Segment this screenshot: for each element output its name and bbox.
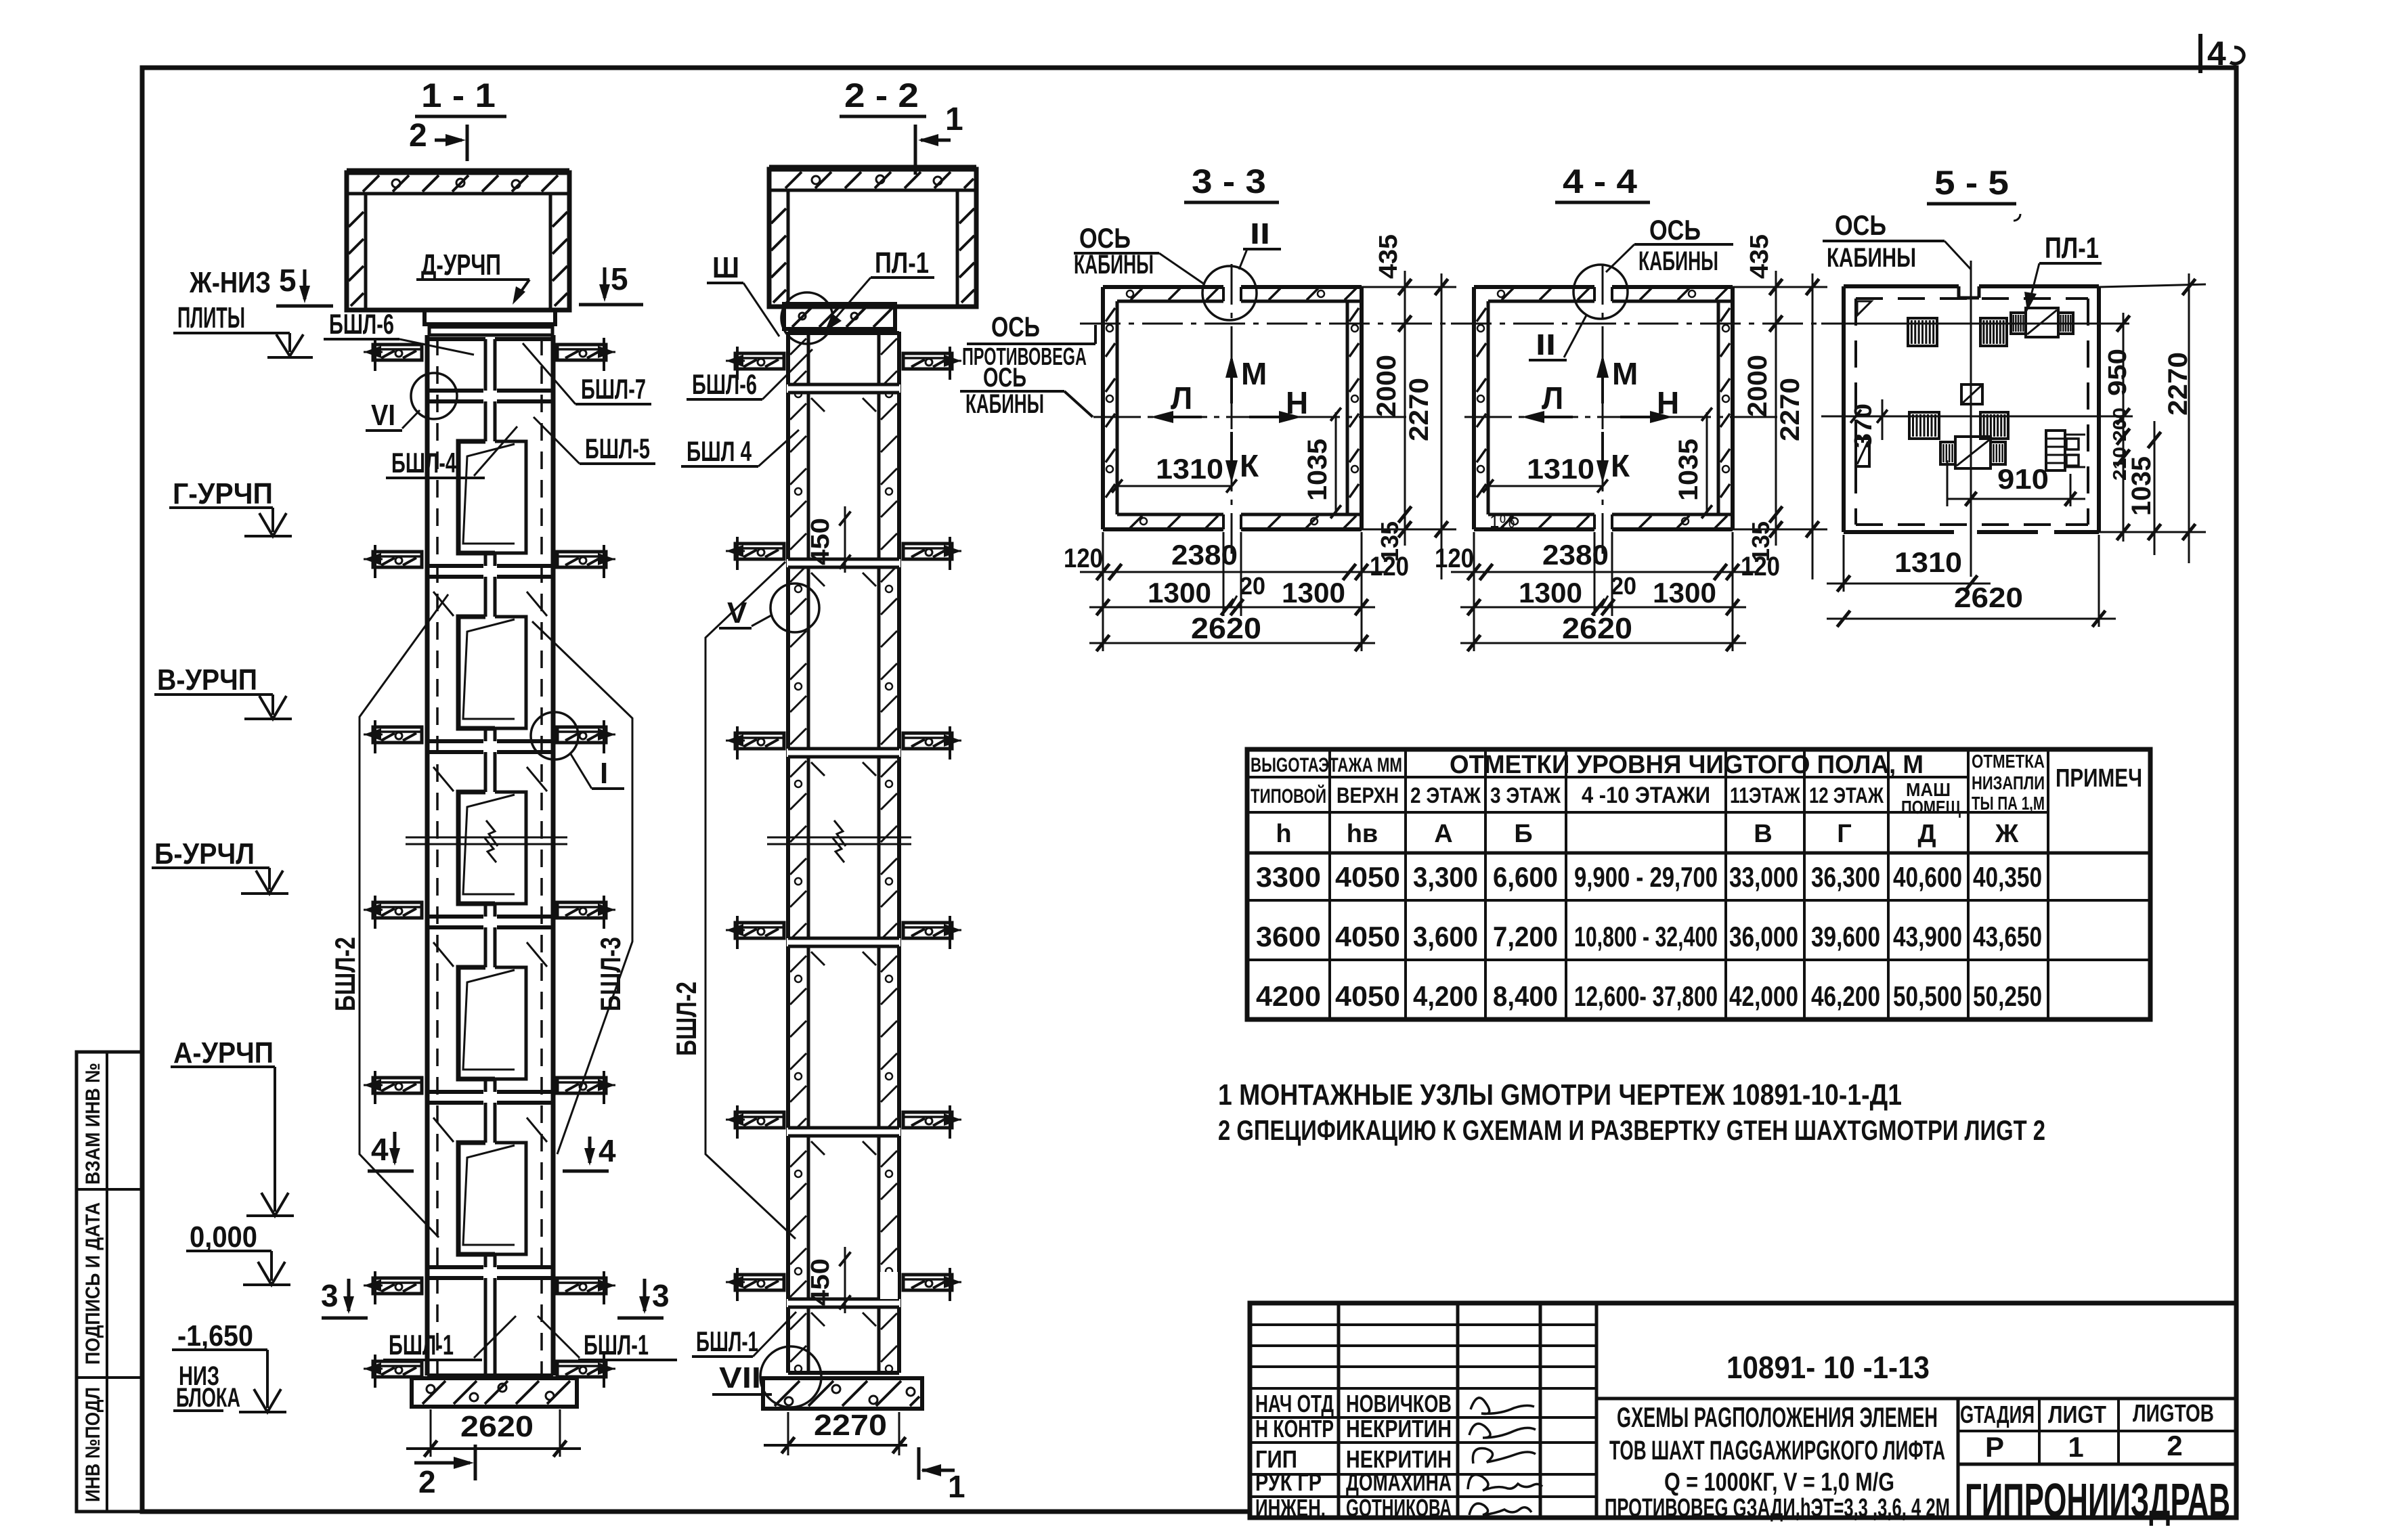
- svg-text:Г-УРЧП: Г-УРЧП: [173, 477, 273, 510]
- svg-text:43,900: 43,900: [1893, 921, 1962, 952]
- svg-text:ОСЬ: ОСЬ: [1835, 209, 1886, 241]
- svg-text:Н: Н: [1286, 385, 1308, 420]
- svg-text:Л: Л: [1171, 380, 1192, 416]
- center slit between half-blocks 1-1: [484, 339, 487, 391]
- svg-text:ИНВ №ПОДЛ: ИНВ №ПОДЛ: [82, 1387, 104, 1502]
- svg-text:3: 3: [321, 1278, 339, 1313]
- svg-text:ОСЬ: ОСЬ: [1649, 214, 1701, 246]
- axis cross 5-5: [1821, 323, 2129, 325]
- svg-text:Ж: Ж: [1995, 820, 2019, 848]
- svg-text:М: М: [1612, 356, 1638, 391]
- door openings with leaves 1-1: [458, 441, 495, 553]
- svg-text:К: К: [1611, 448, 1630, 483]
- block leader ticks inside rows 1-1: [433, 592, 454, 616]
- svg-text:БШЛ-1: БШЛ-1: [696, 1325, 758, 1357]
- svg-text:ПЛИТЫ: ПЛИТЫ: [177, 301, 245, 334]
- svg-text:Н КОНТР: Н КОНТР: [1255, 1415, 1334, 1443]
- dashed walls below 5-5: [1856, 297, 2088, 300]
- title block doc number cell line: [1596, 1397, 2236, 1401]
- svg-text:ТОВ ШАХТ ПАGGАЖИРGКОГО ЛИФТА: ТОВ ШАХТ ПАGGАЖИРGКОГО ЛИФТА: [1609, 1436, 1945, 1466]
- right dim line 2270 4-4: [1812, 273, 1814, 579]
- detail circle I on right joint: [531, 712, 578, 760]
- title block outer border: [1250, 1303, 2236, 1518]
- svg-text:950: 950: [2104, 349, 2132, 396]
- svg-text:3 ЭТАЖ: 3 ЭТАЖ: [1490, 783, 1561, 808]
- svg-text:1%: 1%: [1490, 511, 1515, 531]
- table vertical lines: [1328, 749, 1331, 1019]
- storey heights table: [1247, 749, 2150, 1019]
- controller block right 5-5: [2046, 431, 2065, 470]
- svg-text:БШЛ-1: БШЛ-1: [389, 1329, 454, 1361]
- detail circle III top plate 2-2: [781, 292, 833, 344]
- svg-text:50,500: 50,500: [1893, 980, 1962, 1012]
- svg-text:-1,650: -1,650: [177, 1319, 253, 1352]
- title block horizontal lines left part: [1250, 1323, 1596, 1326]
- svg-text:8,400: 8,400: [1493, 980, 1558, 1012]
- svg-text:БШЛ-2: БШЛ-2: [329, 937, 361, 1011]
- right dim line 2000/435/135 3-3: [1404, 271, 1406, 546]
- left margin attachment table: [77, 1052, 142, 1512]
- svg-text:ВЗАМ ИНВ №: ВЗАМ ИНВ №: [82, 1063, 104, 1185]
- bottom dimension lines 3-3: [1102, 532, 1104, 651]
- svg-text:БШЛ 4: БШЛ 4: [687, 435, 752, 467]
- section cut mark 2 bottom: [414, 1461, 470, 1465]
- svg-text:БШЛ-5: БШЛ-5: [585, 433, 650, 464]
- svg-text:0,000: 0,000: [190, 1220, 257, 1254]
- svg-text:5: 5: [611, 261, 628, 296]
- svg-text:120: 120: [1064, 544, 1103, 573]
- hatch machine room top slab 1-1: [363, 175, 379, 192]
- shaft left wall hatched 2-2: [786, 332, 790, 1373]
- svg-text:GОТНИКОВА: GОТНИКОВА: [1346, 1494, 1452, 1522]
- svg-text:10891- 10 -1-13: 10891- 10 -1-13: [1726, 1350, 1930, 1385]
- base slab 2-2: [763, 1378, 922, 1409]
- corner angle mark top left 5-5: [1857, 301, 1871, 315]
- machine room walls section 2-2: [769, 169, 976, 307]
- detail circle VII bottom 2-2: [760, 1346, 821, 1407]
- stage table lines: [1958, 1430, 2236, 1432]
- svg-text:ПЛ-1: ПЛ-1: [875, 246, 929, 280]
- svg-text:2380: 2380: [1171, 539, 1238, 571]
- svg-text:4: 4: [371, 1132, 389, 1167]
- svg-text:4 - 4: 4 - 4: [1563, 162, 1637, 200]
- svg-text:Н: Н: [1657, 385, 1679, 420]
- hatch machine room left wall 2-2: [771, 208, 786, 223]
- svg-text:В: В: [1754, 820, 1772, 848]
- svg-text:Б: Б: [1514, 820, 1532, 848]
- svg-text:КАБИНЫ: КАБИНЫ: [1827, 243, 1916, 273]
- detail circle VI on joint: [411, 373, 457, 419]
- detail circle II on 4-4 top joint: [1573, 265, 1628, 319]
- svg-text:ВЕРХН: ВЕРХН: [1337, 783, 1399, 808]
- svg-text:ОСЬ: ОСЬ: [1079, 222, 1131, 254]
- svg-text:2620: 2620: [1954, 581, 2023, 613]
- svg-text:1 - 1: 1 - 1: [421, 76, 496, 114]
- svg-text:5 - 5: 5 - 5: [1934, 164, 2009, 202]
- svg-text:1035: 1035: [1674, 439, 1703, 501]
- svg-text:2620: 2620: [460, 1410, 534, 1443]
- svg-text:Л: Л: [1542, 380, 1563, 416]
- svg-text:120: 120: [1370, 552, 1409, 581]
- svg-text:3,600: 3,600: [1413, 921, 1478, 952]
- svg-text:А: А: [1434, 820, 1452, 848]
- svg-text:БШЛ-6: БШЛ-6: [692, 368, 757, 400]
- page number 4o top right: [2198, 34, 2202, 73]
- svg-text:ГИПРОНИИЗДРАВ: ГИПРОНИИЗДРАВ: [1965, 1474, 2230, 1526]
- svg-text:М: М: [1241, 356, 1267, 391]
- svg-text:1: 1: [945, 102, 963, 137]
- svg-text:КАБИНЫ: КАБИНЫ: [1074, 250, 1154, 280]
- svg-text:1310: 1310: [1894, 546, 1962, 578]
- svg-text:435: 435: [1745, 234, 1774, 279]
- top plate ПЛ-1 of shaft 2-2: [784, 304, 895, 329]
- floor slab tabs both sides 1-1: [373, 345, 422, 360]
- svg-text:hв: hв: [1347, 820, 1378, 848]
- svg-text:ДОМАХИНА: ДОМАХИНА: [1346, 1468, 1452, 1496]
- dimension 1035 inner 3-3: [1335, 412, 1337, 513]
- top row upper edge 1-1: [427, 337, 485, 341]
- cabin axis cross 3-3: [1080, 323, 1448, 325]
- arrow М up 3-3: [1230, 359, 1233, 403]
- svg-text:VI: VI: [371, 399, 395, 432]
- svg-text:Р: Р: [1985, 1431, 2004, 1463]
- svg-text:GТАДИЯ: GТАДИЯ: [1960, 1401, 2035, 1428]
- machine room walls section 1-1: [347, 173, 569, 310]
- svg-text:2270: 2270: [1404, 378, 1434, 441]
- svg-text:А-УРЧП: А-УРЧП: [173, 1036, 274, 1070]
- cabin axis cross 4-4: [1451, 323, 1819, 325]
- svg-text:1310: 1310: [1156, 453, 1223, 485]
- svg-text:4 -10 ЭТАЖИ: 4 -10 ЭТАЖИ: [1582, 783, 1710, 808]
- shaft bottom edge 2-2: [788, 1371, 899, 1375]
- svg-text:НОВИЧКОВ: НОВИЧКОВ: [1346, 1390, 1452, 1417]
- svg-text:ТИПОВОЙ: ТИПОВОЙ: [1251, 785, 1326, 808]
- svg-text:4: 4: [2207, 35, 2226, 72]
- svg-text:2: 2: [2167, 1430, 2182, 1461]
- svg-text:РУК ГР: РУК ГР: [1255, 1468, 1322, 1496]
- svg-text:ВЫGОТАЭТАЖА ММ: ВЫGОТАЭТАЖА ММ: [1251, 754, 1402, 776]
- top plate УРЧП of shaft 1-1: [425, 310, 555, 324]
- svg-text:2270: 2270: [1775, 378, 1805, 441]
- svg-text:НАЧ ОТД: НАЧ ОТД: [1255, 1390, 1334, 1417]
- shaft top edge 2-2: [788, 331, 899, 335]
- svg-text:3: 3: [652, 1278, 670, 1313]
- svg-text:4050: 4050: [1335, 861, 1400, 893]
- base slab 1-1: [412, 1378, 577, 1407]
- svg-text:36,300: 36,300: [1811, 861, 1880, 893]
- svg-text:Q = 1000КГ, V = 1,0 М/G: Q = 1000КГ, V = 1,0 М/G: [1664, 1468, 1894, 1497]
- svg-text:12 ЭТАЖ: 12 ЭТАЖ: [1809, 783, 1884, 808]
- svg-text:2: 2: [409, 118, 427, 154]
- machine room floor slab outline 5-5: [1844, 284, 1959, 288]
- svg-text:2620: 2620: [1562, 612, 1632, 645]
- shaft right wall hatched 2-2: [877, 332, 881, 1373]
- svg-text:42,000: 42,000: [1729, 980, 1798, 1012]
- svg-text:120: 120: [1741, 552, 1780, 581]
- svg-text:1035: 1035: [1303, 439, 1332, 501]
- svg-text:6,600: 6,600: [1493, 861, 1558, 893]
- hatch machine room right wall 2-2: [959, 208, 974, 223]
- svg-text:КАБИНЫ: КАБИНЫ: [965, 389, 1044, 419]
- svg-text:1300: 1300: [1148, 577, 1211, 609]
- svg-text:4,200: 4,200: [1413, 980, 1478, 1012]
- hoist machine lower 5-5: [1940, 442, 1955, 464]
- signature squiggles: [1471, 1398, 1534, 1414]
- white gap right wall above bottom joint 2-2: [880, 1272, 898, 1299]
- section cut mark 4 right: [588, 1137, 592, 1163]
- svg-text:2000: 2000: [1743, 355, 1773, 417]
- svg-text:10,800 - 32,400: 10,800 - 32,400: [1574, 921, 1718, 952]
- svg-text:20: 20: [1240, 572, 1265, 600]
- svg-text:ПЛ-1: ПЛ-1: [2045, 232, 2099, 265]
- arrow М up 4-4: [1601, 359, 1604, 403]
- svg-text:ЛИGТОВ: ЛИGТОВ: [2133, 1399, 2214, 1427]
- svg-text:4050: 4050: [1335, 921, 1400, 952]
- right dim line 2270 3-3: [1441, 273, 1443, 579]
- svg-text:2270: 2270: [2163, 352, 2193, 416]
- svg-text:450: 450: [806, 1258, 835, 1306]
- dim line 1035 5-5: [2154, 421, 2156, 555]
- svg-text:5: 5: [279, 263, 297, 298]
- motor winding block B 5-5: [1980, 318, 2007, 346]
- svg-text:Б-УРЧЛ: Б-УРЧЛ: [154, 837, 255, 871]
- svg-text:2: 2: [418, 1464, 436, 1499]
- svg-text:h: h: [1276, 820, 1291, 848]
- motor winding block D 5-5: [1980, 412, 2008, 439]
- arrow К down 4-4: [1601, 432, 1604, 478]
- svg-text:7,200: 7,200: [1493, 921, 1558, 952]
- break mark across shaft 2-2: [767, 837, 911, 839]
- section cut mark 4 left: [393, 1132, 397, 1163]
- svg-text:Д: Д: [1917, 820, 1936, 848]
- motor winding block A 5-5: [1908, 318, 1937, 346]
- svg-text:ИНЖЕН.: ИНЖЕН.: [1255, 1494, 1326, 1522]
- svg-text:450: 450: [806, 518, 835, 565]
- svg-text:20: 20: [1611, 572, 1636, 600]
- section cut mark 3 right: [643, 1279, 647, 1311]
- right dim line 950/200/210 5-5: [2123, 313, 2125, 542]
- svg-text:В-УРЧП: В-УРЧП: [157, 663, 257, 697]
- shaft dashed line left 1-1: [436, 338, 439, 1374]
- section cut mark 1 bottom: [922, 1469, 955, 1472]
- detail circle II on 3-3 top joint: [1202, 266, 1257, 320]
- svg-text:4: 4: [599, 1133, 616, 1168]
- svg-text:120: 120: [1435, 544, 1474, 573]
- svg-text:VII: VII: [719, 1361, 761, 1394]
- svg-text:46,200: 46,200: [1811, 980, 1880, 1012]
- hatch machine room top slab 2-2: [785, 172, 802, 188]
- svg-text:БШЛ-6: БШЛ-6: [329, 308, 394, 340]
- svg-text:Ж-НИЗ: Ж-НИЗ: [189, 266, 271, 299]
- svg-text:Д-УРЧП: Д-УРЧП: [421, 248, 501, 282]
- arrow Н right 3-3: [1249, 416, 1297, 418]
- svg-text:36,000: 36,000: [1729, 921, 1798, 952]
- svg-text:II: II: [1250, 217, 1270, 250]
- svg-text:3300: 3300: [1256, 861, 1321, 893]
- svg-text:GХЕМЫ РАGПОЛОЖЕНИЯ ЭЛЕМЕН: GХЕМЫ РАGПОЛОЖЕНИЯ ЭЛЕМЕН: [1617, 1401, 1938, 1433]
- svg-text:9,900 - 29,700: 9,900 - 29,700: [1574, 861, 1718, 893]
- floor slab tabs both sides 2-2: [735, 353, 784, 369]
- svg-text:39,600: 39,600: [1811, 921, 1880, 952]
- svg-text:370: 370: [1849, 403, 1877, 448]
- svg-text:БШЛ-1: БШЛ-1: [584, 1329, 649, 1361]
- svg-text:33,000: 33,000: [1729, 861, 1798, 893]
- dimension 1035 inner 4-4: [1706, 412, 1708, 513]
- table horizontal lines: [1247, 776, 1968, 778]
- title block main vertical divider: [1957, 1399, 1960, 1518]
- svg-text:ЛИGТ: ЛИGТ: [2048, 1401, 2106, 1428]
- svg-text:12,600- 37,800: 12,600- 37,800: [1574, 980, 1718, 1012]
- wall hatching plan 3-3: [1131, 288, 1142, 300]
- svg-text:НИЗАПЛИ: НИЗАПЛИ: [1972, 772, 2045, 793]
- arrow Н right 4-4: [1620, 416, 1668, 418]
- small pulley square center 5-5: [1961, 384, 1982, 404]
- svg-text:1300: 1300: [1282, 577, 1345, 609]
- svg-text:1300: 1300: [1653, 577, 1716, 609]
- svg-text:4200: 4200: [1256, 980, 1321, 1012]
- svg-text:II: II: [1536, 328, 1556, 361]
- svg-text:910: 910: [1997, 463, 2049, 495]
- svg-text:I: I: [600, 757, 608, 790]
- svg-text:Ш: Ш: [712, 251, 739, 284]
- svg-text:ОСЬ: ОСЬ: [983, 363, 1026, 393]
- shaft dashed line right 1-1: [540, 338, 543, 1374]
- svg-text:ПРИМЕЧ: ПРИМЕЧ: [2056, 764, 2142, 793]
- svg-text:ПОДПИСЬ И ДАТА: ПОДПИСЬ И ДАТА: [82, 1202, 104, 1365]
- outer walls plan 4-4: [1474, 285, 1594, 289]
- svg-text:2 ЭТАЖ: 2 ЭТАЖ: [1410, 783, 1481, 808]
- svg-text:БШЛ-4: БШЛ-4: [391, 447, 456, 479]
- svg-text:1300: 1300: [1519, 577, 1582, 609]
- arrow К down 3-3: [1230, 432, 1233, 478]
- svg-text:2000: 2000: [1372, 355, 1402, 417]
- svg-text:ОТМЕТКИ УРОВНЯ ЧИGТОГО ПОЛА, М: ОТМЕТКИ УРОВНЯ ЧИGТОГО ПОЛА, М: [1450, 751, 1924, 779]
- svg-text:3600: 3600: [1256, 921, 1321, 952]
- svg-text:1310: 1310: [1527, 453, 1594, 485]
- section cut mark 3 left: [347, 1279, 351, 1311]
- svg-text:50,250: 50,250: [1973, 980, 2042, 1012]
- svg-text:ОСЬ: ОСЬ: [991, 311, 1040, 343]
- svg-text:1035: 1035: [2127, 456, 2156, 516]
- svg-text:НЕКРИТИН: НЕКРИТИН: [1346, 1415, 1452, 1443]
- shaft joints 2-2: [787, 384, 900, 393]
- svg-text:43,650: 43,650: [1973, 921, 2042, 952]
- dim line 2270 5-5: [2188, 273, 2190, 563]
- svg-text:40,350: 40,350: [1973, 861, 2042, 893]
- hatch machine room right wall 1-1: [552, 212, 567, 227]
- svg-text:КАБИНЫ: КАБИНЫ: [1638, 246, 1718, 276]
- motor winding block C 5-5: [1909, 412, 1939, 439]
- detail circle V on 2-2 left wall: [770, 584, 819, 632]
- svg-text:40,600: 40,600: [1893, 861, 1962, 893]
- svg-text:2620: 2620: [1191, 612, 1261, 645]
- svg-text:11ЭТАЖ: 11ЭТАЖ: [1730, 783, 1801, 808]
- svg-text:ПОМЕЩ: ПОМЕЩ: [1901, 797, 1961, 818]
- right dim line 2000/435/135 4-4: [1775, 271, 1777, 546]
- hoist machine ПЛ-1 top 5-5: [2011, 313, 2026, 334]
- svg-text:ПРОТИВОВЕG GЗАДИ,hЭТ=3,3 ,3,6,: ПРОТИВОВЕG GЗАДИ,hЭТ=3,3 ,3,6, 4 2М: [1605, 1494, 1950, 1522]
- svg-text:1: 1: [948, 1469, 965, 1504]
- break mark across shaft 1-1: [406, 837, 567, 839]
- svg-text:ОТМЕТКА: ОТМЕТКА: [1972, 751, 2045, 772]
- wall hatching plan 4-4: [1502, 288, 1513, 300]
- svg-text:Г: Г: [1837, 820, 1852, 848]
- outer walls plan 3-3: [1103, 285, 1223, 289]
- shaft left wall 1-1: [425, 335, 430, 1376]
- svg-text:4050: 4050: [1335, 980, 1400, 1012]
- svg-text:ТЫ ПА 1,М: ТЫ ПА 1,М: [1972, 793, 2045, 814]
- arrow Л left 3-3: [1156, 416, 1202, 418]
- svg-text:1: 1: [2068, 1431, 2083, 1463]
- shaft right wall 1-1: [551, 335, 556, 1376]
- svg-text:К: К: [1240, 448, 1259, 483]
- left small bracket 5-5: [1856, 439, 1869, 466]
- svg-text:БШЛ-2: БШЛ-2: [670, 982, 702, 1056]
- svg-text:3,300: 3,300: [1413, 861, 1478, 893]
- svg-text:2380: 2380: [1542, 539, 1609, 571]
- svg-text:2 GПЕЦИФИКАЦИЮ К GХЕМАМ И: 2 GПЕЦИФИКАЦИЮ К GХЕМАМ И РАЗВЕРТКУ GТЕН…: [1218, 1114, 2045, 1146]
- svg-text:2270: 2270: [814, 1409, 887, 1442]
- wall hatching with circles 2-2: [790, 338, 806, 355]
- svg-text:2 - 2: 2 - 2: [844, 76, 919, 114]
- svg-text:3 - 3: 3 - 3: [1192, 162, 1266, 200]
- svg-text:1 МОНТАЖНЫЕ УЗЛЫ GМОТРИ ЧЕР: 1 МОНТАЖНЫЕ УЗЛЫ GМОТРИ ЧЕРТЕЖ 10891-10-…: [1218, 1078, 1902, 1112]
- title block vertical dividers left part: [1337, 1303, 1341, 1518]
- hatch machine room left wall 1-1: [349, 212, 364, 227]
- bottom dimension lines 4-4: [1473, 532, 1475, 651]
- arrow Л left 4-4: [1527, 416, 1573, 418]
- svg-text:БШЛ-7: БШЛ-7: [581, 373, 646, 405]
- bottom row lower edge 1-1: [427, 1373, 553, 1378]
- svg-text:БЛОКА: БЛОКА: [176, 1383, 240, 1413]
- svg-text:200: 200: [2109, 408, 2130, 441]
- shaft joints between block rows 1-1: [427, 389, 483, 393]
- svg-text:435: 435: [1374, 234, 1403, 279]
